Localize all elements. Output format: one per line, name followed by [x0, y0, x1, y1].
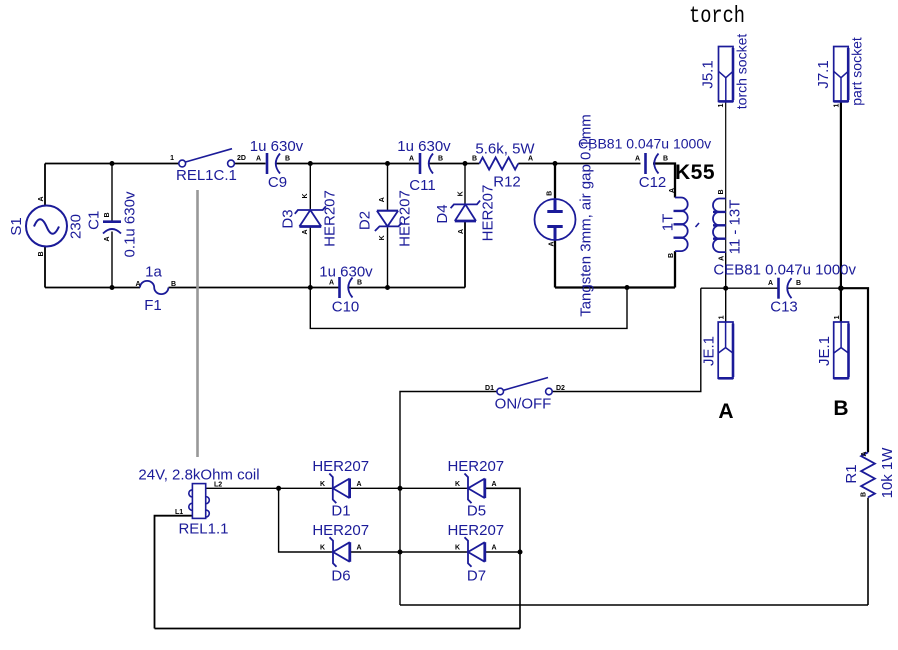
diode D6 [330, 537, 350, 567]
J5.1 labels [700, 34, 750, 110]
svg-text:B: B [285, 156, 290, 163]
wire: D5 anode to right corner down [485, 488, 520, 628]
svg-text:L1: L1 [175, 509, 183, 516]
svg-text:A: A [718, 400, 733, 423]
svg-text:10k 1W: 10k 1W [879, 447, 896, 499]
svg-text:K55: K55 [675, 161, 715, 184]
D7 labels [447, 522, 504, 585]
wire: D4 branch upper x=465 [464, 164, 466, 205]
wire: bottom row y=605 [400, 604, 868, 606]
svg-text:C10: C10 [332, 299, 360, 316]
svg-text:K: K [302, 193, 309, 198]
capacitor C10 [340, 277, 353, 298]
svg-text:HER207: HER207 [397, 190, 414, 247]
resistor R1 [861, 452, 875, 497]
svg-text:A: A [768, 280, 773, 287]
svg-text:D2: D2 [556, 385, 565, 392]
svg-text:K: K [320, 481, 325, 488]
wire: spark gap branch x=555 and bottom rail right part [555, 164, 675, 288]
D4 labels [434, 185, 497, 242]
svg-text:D7: D7 [467, 568, 486, 585]
wire: secondary bottom to node [725, 252, 727, 322]
wire: C13 node down-left to ON/OFF [552, 288, 701, 391]
socket JE1 B [834, 322, 849, 378]
svg-text:JE.1: JE.1 [701, 336, 718, 366]
capacitor C11 [420, 153, 433, 174]
svg-text:1T: 1T [660, 214, 677, 232]
K55 secondary labels [718, 189, 744, 260]
svg-text:A: A [635, 156, 640, 163]
svg-text:A: A [492, 481, 497, 488]
svg-text:A: A [256, 156, 261, 163]
svg-text:C13: C13 [770, 299, 798, 316]
svg-text:K: K [455, 481, 460, 488]
svg-text:A: A [302, 229, 309, 234]
svg-text:HER207: HER207 [447, 522, 504, 539]
D3 labels [279, 190, 338, 247]
svg-text:REL1.1: REL1.1 [178, 521, 228, 538]
S1 labels [8, 196, 85, 256]
svg-text:A: A [357, 481, 362, 488]
svg-text:1: 1 [834, 315, 841, 319]
REL1.1 labels [138, 467, 259, 538]
svg-text:B: B [668, 253, 675, 258]
svg-text:A: A [104, 236, 111, 241]
wire: R1 bottom down [867, 498, 869, 605]
diode D3 [295, 206, 326, 226]
transformer K55 primary [674, 198, 688, 252]
svg-text:B: B [171, 281, 176, 288]
svg-text:D5: D5 [467, 503, 486, 520]
relay coil REL1.1 [189, 484, 210, 519]
svg-text:A: A [528, 156, 533, 163]
svg-text:B: B [833, 397, 848, 420]
C1 labels [86, 191, 139, 257]
svg-text:B: B [861, 492, 868, 497]
svg-text:D1: D1 [485, 385, 494, 392]
svg-text:1: 1 [718, 315, 725, 319]
svg-text:1u 630v: 1u 630v [397, 138, 451, 155]
J7.1 labels [815, 37, 865, 107]
svg-text:part socket: part socket [849, 37, 865, 106]
transformer K55 secondary [713, 199, 726, 253]
wire: ON/OFF left to bottom corner [400, 392, 497, 606]
wire: C1 branch x=112 [111, 164, 113, 288]
R12 labels [472, 141, 535, 191]
relay contact REL1C.1 [179, 149, 235, 167]
wire: D2 branch x=387.5 [387, 164, 389, 288]
svg-text:D3: D3 [279, 209, 296, 228]
socket JE1 A [718, 322, 733, 378]
svg-text:REL1C.1: REL1C.1 [176, 167, 237, 184]
wire: node B to JE1-B [840, 288, 842, 322]
svg-text:HER207: HER207 [447, 458, 504, 475]
gray relay link line [196, 190, 199, 457]
ON/OFF labels [485, 385, 565, 413]
svg-text:1u 630v: 1u 630v [319, 264, 373, 281]
resistor R12 [479, 157, 518, 169]
wire: node A down to D6 row [279, 488, 520, 552]
svg-text:ON/OFF: ON/OFF [495, 396, 552, 413]
wire: torch socket J5.1 to secondary [725, 101, 727, 252]
svg-text:D4: D4 [434, 204, 451, 223]
capacitor C9 [267, 153, 280, 174]
svg-text:D1: D1 [331, 503, 350, 520]
svg-text:24V, 2.8kOhm coil: 24V, 2.8kOhm coil [138, 467, 259, 484]
svg-text:A: A [719, 256, 726, 261]
JE1 A labels [701, 315, 734, 423]
wire: top rail y=163.5 [45, 163, 641, 165]
JE1 B labels [816, 315, 849, 420]
diode D5 [465, 474, 485, 504]
R1 labels [843, 447, 896, 499]
capacitor C13 [779, 278, 792, 299]
svg-text:torch socket: torch socket [734, 34, 750, 110]
svg-text:B: B [796, 280, 801, 287]
svg-text:1: 1 [718, 103, 725, 107]
svg-text:C9: C9 [268, 174, 287, 191]
svg-text:A: A [492, 545, 497, 552]
C10 labels [319, 264, 373, 316]
svg-text:230: 230 [68, 214, 85, 239]
svg-text:R1: R1 [843, 464, 860, 483]
svg-text:0.1u 630v: 0.1u 630v [122, 191, 139, 257]
F1 labels [136, 264, 177, 315]
svg-text:B: B [438, 156, 443, 163]
part socket J7.1 [834, 47, 849, 102]
C9 labels [250, 138, 304, 191]
svg-text:JE.1: JE.1 [816, 336, 833, 366]
D5 labels [447, 458, 504, 520]
capacitor C1 [103, 222, 121, 234]
K55 phase mark [696, 223, 700, 227]
wire: relay L1 down [155, 516, 193, 629]
C12 labels [578, 136, 711, 192]
svg-text:A: A [669, 188, 676, 193]
svg-text:A: A [357, 545, 362, 552]
svg-text:D2: D2 [357, 211, 374, 230]
svg-text:C12: C12 [639, 174, 667, 191]
wire: lower bypass loop y=328.4 [310, 288, 627, 329]
svg-text:B: B [663, 156, 668, 163]
svg-text:1u 630v: 1u 630v [250, 138, 304, 155]
svg-text:5.6k, 5W: 5.6k, 5W [475, 141, 535, 158]
svg-text:B: B [357, 280, 362, 287]
svg-text:B: B [718, 189, 725, 194]
svg-text:F1: F1 [144, 297, 162, 314]
fuse F1 [140, 281, 168, 294]
svg-text:1a: 1a [145, 264, 162, 281]
svg-text:S1: S1 [8, 217, 25, 235]
wire: bottom-most row y=628.5 [155, 628, 521, 630]
C11 labels [397, 138, 451, 194]
spark gap labels [547, 114, 595, 317]
spark gap [535, 199, 576, 240]
svg-text:A: A [329, 280, 334, 287]
D6 labels [312, 522, 369, 585]
capacitor C12 [646, 153, 659, 174]
wire: C13 row y=288.2 [701, 287, 841, 289]
svg-text:A: A [861, 451, 868, 456]
wire: D3 branch x=310.3 [309, 164, 311, 288]
svg-text:J5.1: J5.1 [700, 60, 717, 88]
svg-text:A: A [379, 197, 386, 202]
svg-text:B: B [38, 251, 45, 256]
svg-text:torch: torch [689, 3, 745, 29]
wire: bottom rail y=287.5 left part [45, 221, 465, 288]
svg-text:A: A [136, 281, 141, 288]
C13 labels [713, 262, 856, 316]
svg-text:K: K [455, 545, 460, 552]
svg-text:A: A [409, 156, 414, 163]
REL1C.1 labels [170, 155, 246, 184]
svg-text:L2: L2 [214, 482, 222, 489]
diode D7 [465, 537, 485, 567]
D2 labels [357, 190, 414, 247]
svg-text:B: B [547, 191, 554, 196]
svg-text:R12: R12 [493, 174, 521, 191]
svg-text:C11: C11 [409, 177, 435, 194]
svg-text:A: A [458, 229, 465, 234]
wire: left rail x=45 with S1 [44, 164, 46, 288]
wire: relay L2 row to D1 [206, 487, 468, 489]
K55 primary labels [660, 188, 677, 258]
svg-text:D6: D6 [331, 568, 350, 585]
svg-text:HER207: HER207 [480, 185, 497, 242]
svg-text:B: B [472, 156, 477, 163]
svg-text:1: 1 [170, 155, 174, 162]
svg-text:1: 1 [834, 103, 841, 107]
svg-text:J7.1: J7.1 [815, 60, 832, 88]
svg-text:K: K [379, 235, 386, 240]
AC source S1 [26, 206, 67, 247]
svg-text:HER207: HER207 [312, 522, 369, 539]
svg-text:CEB81 0.047u 1000v: CEB81 0.047u 1000v [713, 262, 856, 279]
svg-text:K: K [458, 191, 465, 196]
torch socket J5.1 [719, 47, 734, 102]
svg-text:A: A [38, 196, 45, 201]
svg-text:HER207: HER207 [312, 458, 369, 475]
svg-text:HER207: HER207 [322, 190, 339, 247]
wire: part socket J7.1 down to node B [840, 101, 842, 288]
wire: node B right to R1 rail [841, 288, 868, 452]
D1 labels [312, 458, 369, 520]
svg-text:2D: 2D [237, 155, 246, 162]
svg-text:CBB81 0.047u 1000v: CBB81 0.047u 1000v [578, 136, 711, 152]
svg-text:B: B [104, 212, 111, 217]
diode D1 [329, 474, 349, 504]
svg-text:C1: C1 [86, 211, 103, 230]
diode D2 [375, 211, 402, 231]
switch ON/OFF [497, 378, 552, 395]
svg-text:A: A [549, 241, 556, 246]
svg-text:11 - 13T: 11 - 13T [727, 200, 744, 255]
svg-text:K: K [320, 545, 325, 552]
diode D4 [451, 201, 481, 221]
